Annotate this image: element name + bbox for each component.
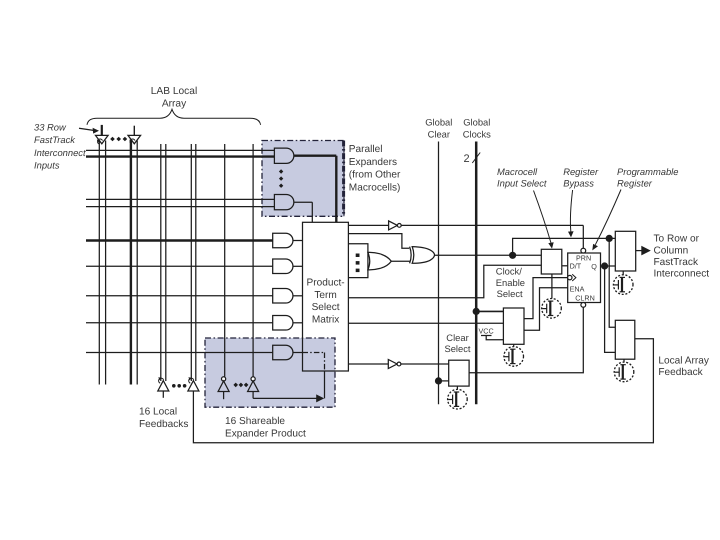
junction on global clear to clear select xyxy=(435,377,449,384)
svg-text:Macrocell: Macrocell xyxy=(497,166,538,177)
wire: matrix to clear inverter xyxy=(348,363,448,365)
svg-text:Clock/: Clock/ xyxy=(496,266,522,277)
label: Parallel Expanders (from Other Macrocells) xyxy=(349,144,401,193)
matrix AND gate 1 xyxy=(273,233,303,248)
wire: register Q output xyxy=(601,262,616,352)
wire: clock/enable select to register ENA xyxy=(524,288,568,330)
wire: matrix to clock/enable select xyxy=(348,322,503,324)
svg-text:CLRN: CLRN xyxy=(575,293,595,302)
fasttrack output box B1 xyxy=(615,231,635,271)
svg-text:Clear: Clear xyxy=(428,129,450,140)
dots between feedback buffers xyxy=(172,384,186,388)
label: 16 Shareable Expander Product xyxy=(225,416,306,440)
wire: local array feedback loop xyxy=(193,339,653,443)
svg-text:Clocks: Clocks xyxy=(463,129,491,140)
svg-text:Global: Global xyxy=(463,117,490,128)
VCC supply xyxy=(479,326,504,339)
EEPROM cell C5 (below feedback box B2) xyxy=(614,359,634,382)
label: Local Array Feedback xyxy=(658,355,709,378)
svg-text:Register: Register xyxy=(563,166,599,177)
label: 16 Local Feedbacks xyxy=(139,407,188,430)
output arrow to row/column interconnect xyxy=(636,246,651,256)
net: global clear vertical xyxy=(438,142,440,405)
svg-text:Q: Q xyxy=(591,262,597,271)
expander buffer E2 xyxy=(248,377,259,399)
svg-text:(from Other: (from Other xyxy=(349,170,401,181)
svg-text:Term: Term xyxy=(314,290,336,301)
svg-text:Clear: Clear xyxy=(446,332,468,343)
input buffer 2 xyxy=(128,126,141,144)
net: global clocks vertical (2 lines) xyxy=(464,142,481,405)
svg-text:FastTrack: FastTrack xyxy=(34,134,76,145)
local array row wires xyxy=(86,150,274,352)
svg-text:Select: Select xyxy=(312,302,340,313)
wire: matrix to XOR top input xyxy=(348,234,409,249)
svg-text:Select: Select xyxy=(497,288,523,299)
svg-text:Expander Product: Expander Product xyxy=(225,429,306,440)
LAB local array shaded box (parallel expanders) xyxy=(262,141,344,217)
svg-text:VCC: VCC xyxy=(479,326,494,335)
feedback buffer F1 (16 local feedbacks) xyxy=(158,377,169,398)
svg-text:Global: Global xyxy=(425,117,452,128)
svg-text:D/T: D/T xyxy=(570,262,582,271)
svg-text:Register: Register xyxy=(617,178,653,189)
label: Clear Select xyxy=(444,332,470,354)
junction on global clocks to clock/enable select xyxy=(473,308,504,315)
svg-text:Programmable: Programmable xyxy=(617,166,678,177)
matrix AND gate 5 (shareable expander product term) xyxy=(273,345,303,360)
label: Macrocell Input Select with leader xyxy=(497,166,547,189)
svg-text:Local Array: Local Array xyxy=(658,355,709,366)
brace over LAB local array xyxy=(87,109,261,125)
label: To Row or Column FastTrack Interconnect xyxy=(654,234,710,280)
clear select box xyxy=(449,360,469,386)
svg-text:To Row or: To Row or xyxy=(654,234,700,245)
label: Register Bypass with leader xyxy=(563,166,599,189)
svg-text:Array: Array xyxy=(162,99,187,110)
svg-text:Bypass: Bypass xyxy=(563,178,594,189)
dots of OR inputs xyxy=(356,254,360,273)
macrocell input select box xyxy=(541,249,567,274)
label: 33 Row FastTrack Interconnect Inputs xyxy=(34,122,86,171)
svg-text:FastTrack: FastTrack xyxy=(654,257,699,268)
clock/enable select box xyxy=(503,308,524,344)
label: Clock/Enable Select xyxy=(496,266,525,300)
vertical dots in expander box xyxy=(279,169,283,188)
input buffer 1 (row fasttrack input) xyxy=(96,125,109,144)
svg-text:Feedbacks: Feedbacks xyxy=(139,419,188,430)
label: Global Clear xyxy=(425,117,452,140)
XOR gate U2 xyxy=(410,247,542,264)
matrix AND gate 2 xyxy=(273,259,303,274)
svg-text:33 Row: 33 Row xyxy=(34,122,67,133)
svg-text:Inputs: Inputs xyxy=(34,159,60,170)
matrix AND gate 3 xyxy=(273,289,303,304)
inverter G1 (preset path) xyxy=(389,221,402,230)
AND gate PE2 (parallel expander bottom) xyxy=(274,195,312,223)
local array column wires xyxy=(99,141,253,385)
shared expander shaded box xyxy=(205,338,335,407)
svg-text:16 Local: 16 Local xyxy=(139,407,177,418)
svg-text:Matrix: Matrix xyxy=(312,314,339,325)
dots between expander buffers xyxy=(233,383,248,388)
wire: shareable expander feedback loop xyxy=(253,353,324,403)
feedback buffer F2 xyxy=(188,377,199,391)
svg-text:Feedback: Feedback xyxy=(658,367,703,378)
leader arrow from 33 Row label to input buffer xyxy=(79,128,99,134)
label: LAB Local Array xyxy=(151,86,197,110)
AND gate PE1 (parallel expander top) xyxy=(274,148,336,222)
product-term select matrix box xyxy=(303,222,349,371)
programmable register U3 xyxy=(568,248,601,307)
EEPROM cell C2 (below macrocell input select) xyxy=(542,274,562,318)
wire: matrix to macrocell input select lower input xyxy=(348,265,541,298)
local feedback box B2 xyxy=(615,320,635,359)
wire: clock/enable select to register clock xyxy=(524,278,568,319)
svg-text:Product-: Product- xyxy=(307,278,345,289)
svg-text:Expanders: Expanders xyxy=(349,157,397,168)
svg-text:Input Select: Input Select xyxy=(497,178,547,189)
svg-text:Interconnect: Interconnect xyxy=(654,269,710,280)
svg-text:ENA: ENA xyxy=(570,285,585,294)
dots between input buffers xyxy=(110,137,127,142)
inverter G2 (clear path) xyxy=(388,360,401,369)
svg-text:LAB Local: LAB Local xyxy=(151,86,197,97)
label: Global Clocks xyxy=(463,117,491,140)
matrix AND gate 4 xyxy=(273,316,303,331)
OR gate U1 (product term OR) xyxy=(368,252,410,269)
svg-text:Select: Select xyxy=(444,343,470,354)
svg-text:2: 2 xyxy=(464,153,470,165)
svg-text:Column: Column xyxy=(654,245,689,256)
wire: register bypass line xyxy=(509,235,615,328)
EEPROM cell C4 (below output box B1) xyxy=(613,271,633,294)
svg-text:Macrocells): Macrocells) xyxy=(349,182,401,193)
wire: clear select to CLRN xyxy=(469,307,583,373)
expander buffer E1 xyxy=(218,377,229,399)
svg-text:16 Shareable: 16 Shareable xyxy=(225,416,285,427)
label: Programmable Register with leader xyxy=(617,166,678,189)
svg-text:Interconnect: Interconnect xyxy=(34,147,86,158)
svg-text:Enable: Enable xyxy=(496,277,525,288)
svg-text:Parallel: Parallel xyxy=(349,144,383,155)
OR gate input comb xyxy=(348,244,368,278)
EEPROM cell C3 (below clear select) xyxy=(448,386,468,409)
wire: matrix to preset inverter and PRN xyxy=(348,225,583,248)
EEPROM cell C1 (below clock/enable select) xyxy=(504,344,524,366)
